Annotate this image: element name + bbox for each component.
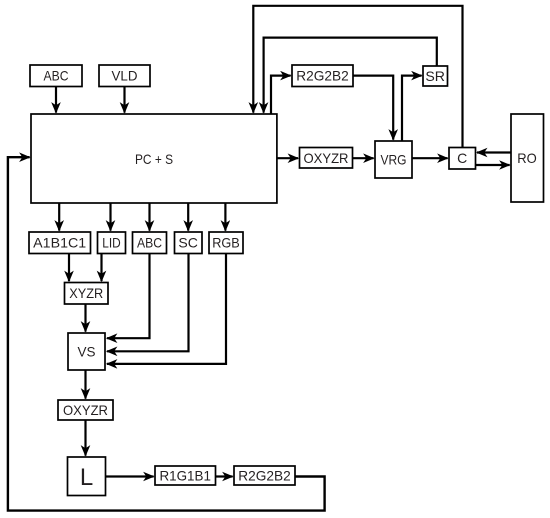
- wire PC+S to R2G2B2: [271, 76, 291, 114]
- wire PC+S to RGB: [224, 204, 226, 231]
- box RO: [511, 114, 544, 202]
- box SR: [423, 66, 448, 86]
- svg-text:L: L: [80, 464, 93, 491]
- box R1G1B1: [155, 466, 216, 485]
- wire RGB to VS: [107, 254, 226, 364]
- wire SR to PC+S top feedback: [264, 38, 437, 113]
- svg-text:VLD: VLD: [112, 68, 138, 84]
- box VLD: [99, 65, 150, 87]
- box VRG: [375, 141, 412, 178]
- wire OXYZR to VRG: [353, 157, 374, 159]
- box C: [449, 148, 476, 170]
- wire VLD to PC+S: [123, 87, 125, 113]
- wire R2G2B2 lower bottom feedback to PC+S: [8, 157, 325, 510]
- svg-text:VS: VS: [78, 344, 96, 360]
- box XYZR: [65, 283, 109, 305]
- wire SC to VS: [107, 254, 189, 351]
- svg-text:OXYZR: OXYZR: [63, 402, 108, 418]
- svg-text:SC: SC: [178, 235, 198, 251]
- wire L to R1G1B1: [106, 475, 154, 477]
- wire A1B1C1 to XYZR: [68, 254, 70, 281]
- box PC + S: [31, 114, 277, 203]
- wire RO to C: [477, 151, 511, 153]
- wire VRG to SR: [402, 76, 422, 141]
- box ABC lower: [133, 232, 167, 254]
- svg-text:RGB: RGB: [212, 235, 240, 251]
- box OXYZR lower: [58, 400, 113, 420]
- svg-text:C: C: [457, 150, 467, 166]
- box OXYZR top: [300, 148, 353, 169]
- box RGB: [209, 232, 243, 254]
- box ABC top: [30, 65, 82, 87]
- wire PC+S to ABC lower: [148, 204, 150, 231]
- svg-text:VRG: VRG: [381, 152, 407, 168]
- box LID: [98, 232, 126, 254]
- svg-text:R2G2B2: R2G2B2: [238, 468, 291, 484]
- box VS: [68, 333, 105, 370]
- box A1B1C1: [29, 232, 91, 254]
- box SC: [175, 232, 203, 254]
- wire PC+S to LID: [109, 204, 111, 231]
- box R2G2B2 top: [292, 65, 353, 87]
- svg-text:A1B1C1: A1B1C1: [33, 235, 86, 251]
- wire R1G1B1 to R2G2B2 lower: [216, 475, 233, 477]
- wire ABC to PC+S: [55, 87, 57, 113]
- wire R2G2B2 to VRG: [354, 76, 394, 140]
- svg-text:PC + S: PC + S: [135, 151, 173, 167]
- wire OXYZR lower to L: [84, 420, 86, 455]
- svg-text:OXYZR: OXYZR: [304, 150, 349, 166]
- wire ABC lower to VS: [107, 254, 150, 338]
- wire C to PC+S top feedback: [253, 6, 462, 147]
- svg-text:ABC: ABC: [44, 68, 69, 84]
- box R2G2B2 lower: [234, 466, 295, 485]
- wire XYZR to VS: [84, 305, 86, 332]
- wire PC+S to SC: [187, 204, 189, 231]
- wire C to RO: [476, 164, 510, 166]
- svg-text:SR: SR: [425, 68, 445, 84]
- wire PC+S to OXYZR: [278, 157, 299, 159]
- svg-text:R2G2B2: R2G2B2: [296, 68, 349, 84]
- svg-text:RO: RO: [517, 150, 537, 166]
- wire VRG to C: [413, 157, 448, 159]
- svg-text:ABC: ABC: [137, 235, 162, 251]
- wire LID to XYZR: [100, 254, 102, 281]
- wire PC+S to A1B1C1: [58, 204, 60, 231]
- svg-text:R1G1B1: R1G1B1: [159, 468, 211, 484]
- wire VS to OXYZR lower: [84, 371, 86, 399]
- svg-text:XYZR: XYZR: [69, 285, 103, 301]
- svg-text:LID: LID: [102, 235, 121, 251]
- box L: [68, 457, 106, 496]
